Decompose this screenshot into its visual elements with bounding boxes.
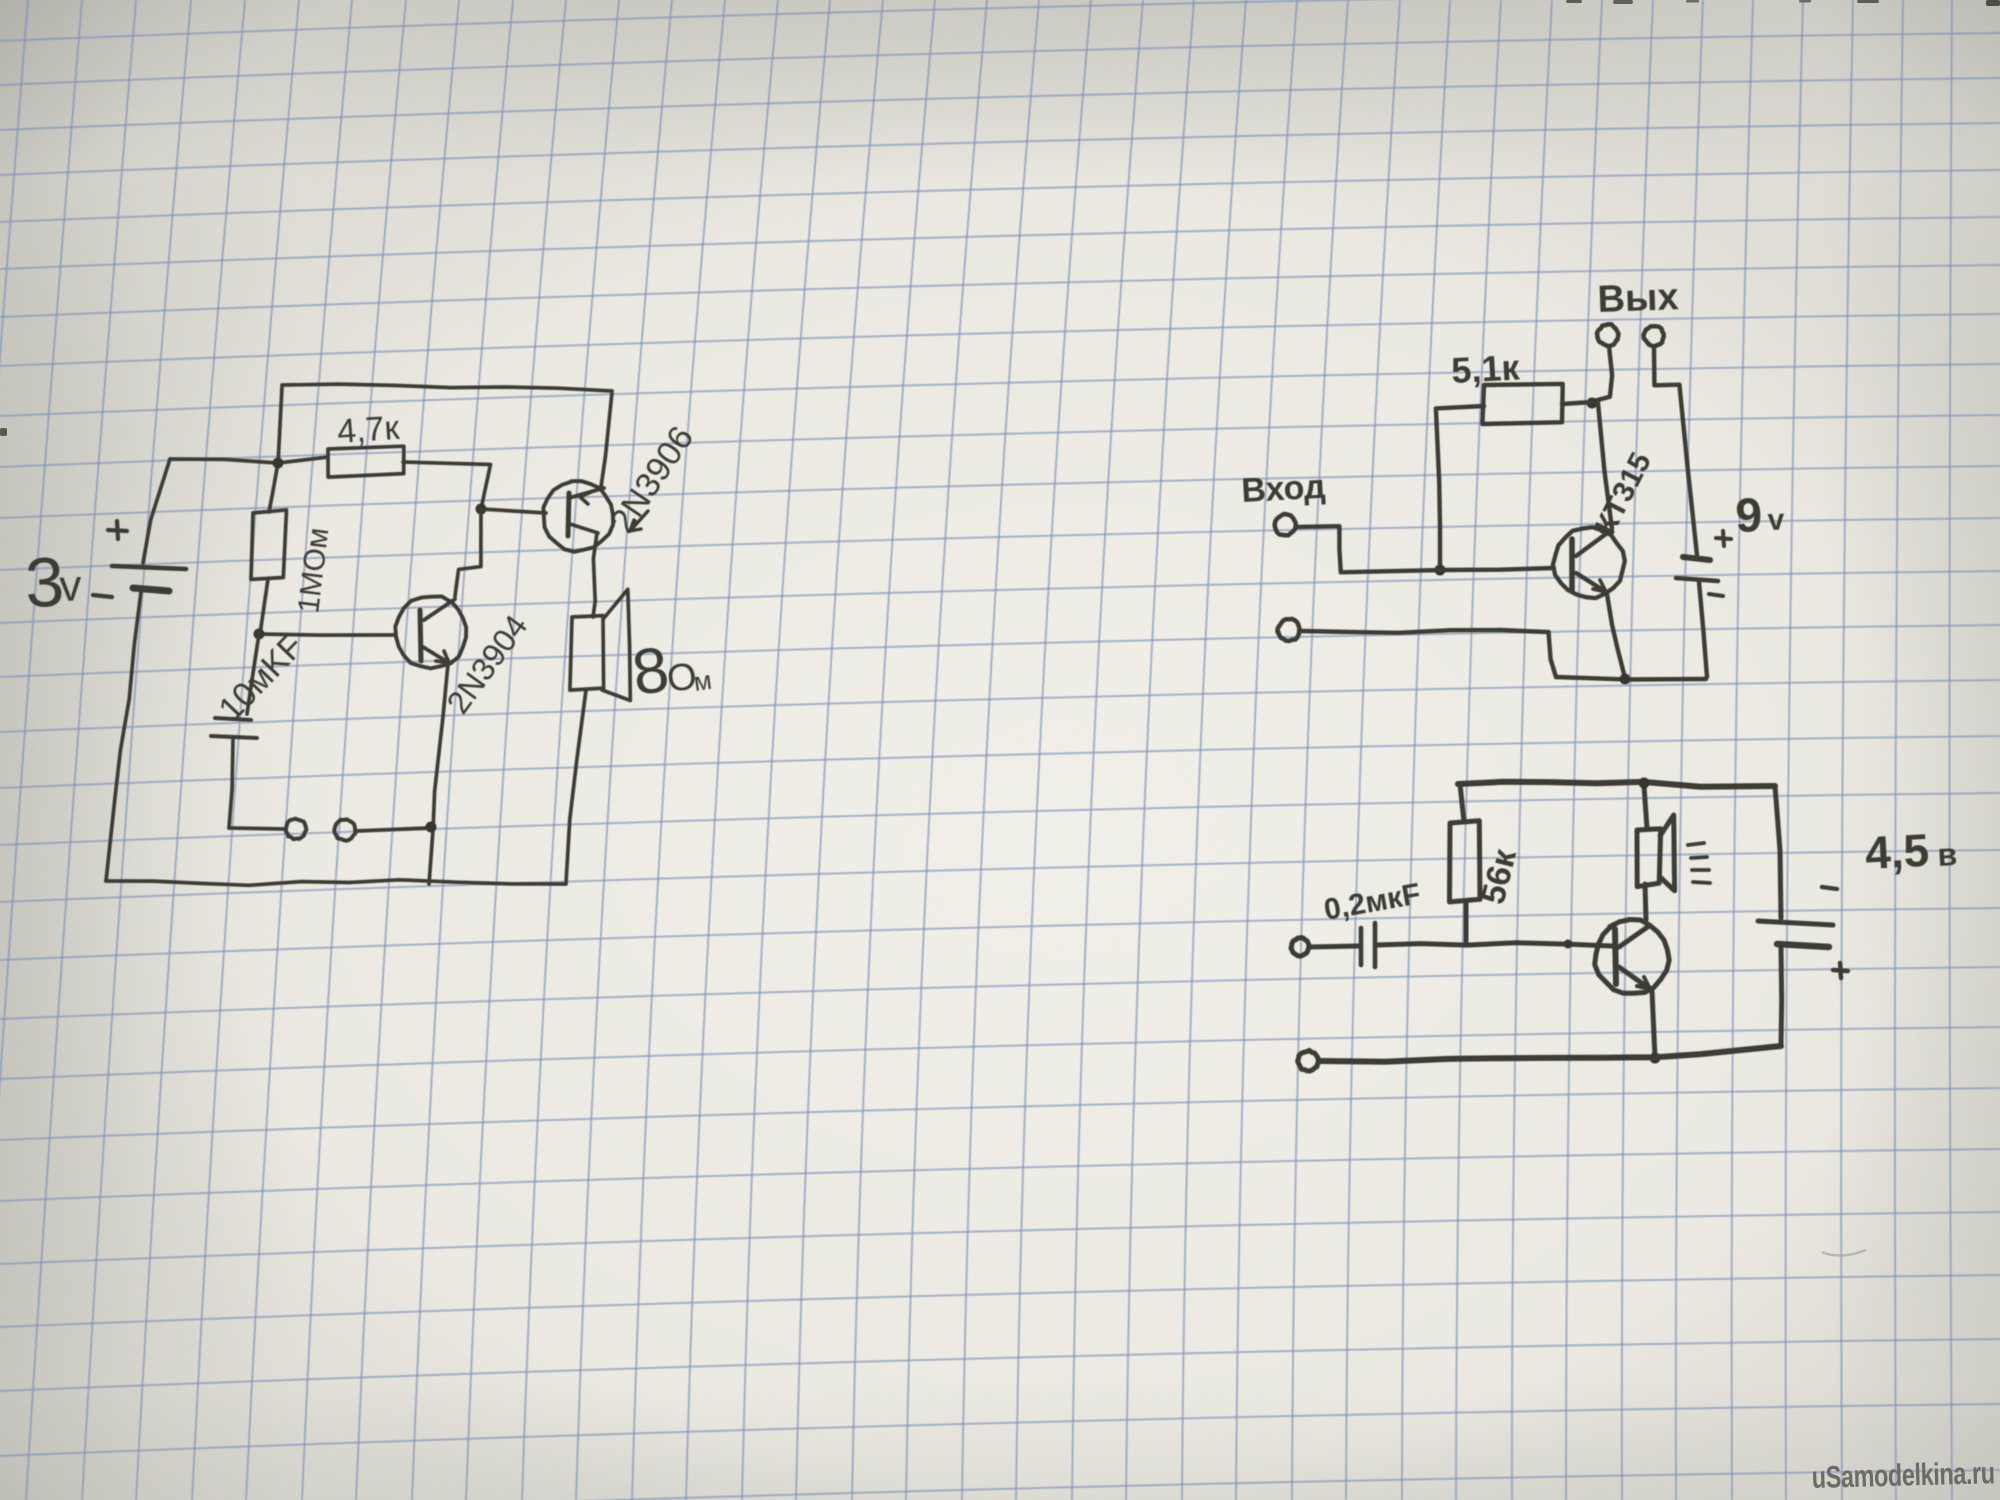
wire cap to terminal <box>229 828 286 829</box>
wire Q4 collector to speaker <box>1645 884 1646 920</box>
wire terminal to emitter node <box>356 828 428 831</box>
wire battery top lead <box>143 459 170 563</box>
wire Q2 base <box>481 509 546 513</box>
transistor Q1 2N3904 <box>395 596 466 668</box>
wire common rail <box>1556 677 1706 680</box>
photo edge mark 1 <box>1566 0 1582 3</box>
speaker LS2 body <box>1637 829 1661 887</box>
resistor R4 56K <box>1450 821 1481 902</box>
battery BT3 4.5v plates <box>1758 921 1833 925</box>
wire cap top lead <box>247 634 259 714</box>
node emitter-rail <box>1620 674 1631 685</box>
terminal OUT2 <box>1644 326 1664 346</box>
wire R2 bottom lead <box>260 579 268 634</box>
wire OUT1 down <box>1594 346 1612 401</box>
resistor R2 1MOm <box>251 510 287 580</box>
transistor Q3 KT315 <box>1553 527 1625 598</box>
terminal COM2 <box>1298 1050 1319 1071</box>
wire top feedback <box>282 384 612 487</box>
ink drawing <box>24 276 1958 1071</box>
wire battery to rail <box>1699 582 1707 677</box>
node R4-base <box>1564 940 1573 949</box>
terminal T1 <box>286 819 307 840</box>
speaker LS2 horn <box>1660 815 1675 891</box>
battery BT1 3v plates <box>112 566 186 569</box>
wire Q2 collector to speaker <box>593 533 597 617</box>
photo edge mark 3 <box>1686 0 1699 3</box>
terminal T2 <box>334 819 355 840</box>
transistor Q2 2N3906 <box>543 481 613 552</box>
wire R3 right lead <box>1562 402 1592 404</box>
node rail-R1-R2 <box>273 458 284 469</box>
capacitor C2 0.2mkF plates <box>1359 928 1364 965</box>
photo edge mark 6 <box>1986 0 2000 6</box>
svg-text:uSamodelkina.ru: uSamodelkina.ru <box>1811 1455 1995 1495</box>
transistor Q4 <box>1595 920 1670 994</box>
photo edge mark 2 <box>1613 0 1633 4</box>
capacitor C1 10mkF plates <box>215 718 251 720</box>
wire cross-couple step <box>455 509 481 596</box>
node R3-collector <box>1587 398 1598 409</box>
wire bottom rail <box>106 880 566 886</box>
terminal IN2 <box>1278 619 1300 641</box>
node rail-speaker <box>1639 778 1650 789</box>
wire Q3 emitter down <box>1607 594 1625 678</box>
wire right side down <box>1775 786 1781 918</box>
resistor R3 5.1K <box>1482 384 1562 424</box>
wire speaker to rail <box>1644 786 1647 828</box>
speaker LS2 sound waves <box>1688 843 1710 883</box>
wire IN3 to cap <box>1310 946 1358 947</box>
wire cap to base <box>1376 943 1612 946</box>
photo edge mark 5 <box>1857 0 1879 3</box>
battery - sign <box>1822 887 1837 889</box>
wire Q3 base <box>1440 568 1554 570</box>
wire rail to R1 <box>278 457 328 463</box>
faint pencil squiggle <box>1822 1250 1866 1256</box>
wire battery bottom lead <box>106 592 141 881</box>
wire R3 left side <box>1436 406 1484 570</box>
wire rail to R4 <box>1460 784 1464 822</box>
wire below battery <box>1779 948 1785 1044</box>
battery - sign <box>93 595 112 597</box>
speaker LS1 horn <box>602 589 630 700</box>
node base junction <box>1435 565 1446 576</box>
wire cap bottom lead <box>229 739 233 828</box>
wire IN2 common <box>1301 630 1556 677</box>
wire base Q1 <box>259 634 395 635</box>
wire bottom rail 2 <box>1319 1046 1781 1062</box>
node emitter-terminal <box>426 822 437 833</box>
wire R4 bottom lead <box>1464 901 1469 944</box>
wire top-left vertical <box>278 387 282 464</box>
terminal IN3 <box>1291 938 1309 957</box>
battery BT2 9v plates <box>1683 557 1710 560</box>
terminal IN1 <box>1275 514 1296 535</box>
terminal OUT1 <box>1597 324 1619 346</box>
wire speaker to bottom rail <box>566 690 586 883</box>
wire R1 to corner <box>403 462 491 509</box>
wire IN1 to base node <box>1296 526 1443 572</box>
wire +3V rail left <box>170 459 278 463</box>
battery - sign <box>1709 594 1723 596</box>
wire Q4 emitter down <box>1652 991 1655 1058</box>
wire Q1 emitter down <box>429 664 448 884</box>
node Q2 base junction <box>476 504 487 515</box>
battery + sign <box>108 521 127 539</box>
photo edge mark 4 <box>1799 0 1811 3</box>
battery + sign <box>1716 531 1731 546</box>
node R2-base junction <box>254 629 265 640</box>
wire R2 top lead <box>269 463 278 512</box>
wire top rail 2 <box>1458 782 1775 787</box>
label arrow to Q2 <box>630 511 648 531</box>
wire OUT2 to battery <box>1654 347 1697 555</box>
battery + sign <box>1833 963 1848 978</box>
speaker LS1 body <box>570 616 604 691</box>
photo edge mark 7 <box>0 428 7 436</box>
resistor R1 4.7K <box>328 446 404 477</box>
wire collector vertical <box>1598 403 1612 529</box>
node emitter-rail 2 <box>1650 1053 1661 1064</box>
